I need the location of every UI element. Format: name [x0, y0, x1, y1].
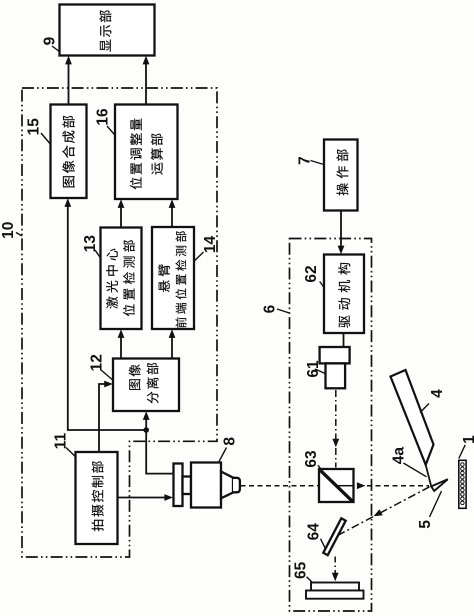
leader 11	[66, 448, 75, 457]
block 15 image synthesis 图像合成部	[51, 105, 87, 199]
block 62 drive mechanism 驱动机构	[324, 255, 364, 334]
block 7 operation unit 操作部	[324, 140, 358, 211]
optical axis splitter to tip with arrow	[357, 482, 366, 489]
svg-text:12: 12	[89, 354, 106, 371]
svg-text:11: 11	[53, 432, 70, 449]
leader 4a	[403, 463, 426, 477]
wire 11 to 12	[99, 384, 107, 452]
leader 64	[321, 539, 326, 549]
leader 8	[219, 448, 227, 462]
block 16 position adjustment calc 位置调整量运算部	[115, 105, 178, 200]
block 11 imaging control 拍摄控制部	[76, 452, 118, 544]
laser source 61 lower	[326, 363, 346, 388]
leader 16	[107, 126, 115, 135]
cantilever holder 4	[391, 370, 434, 465]
laser beam 61 to 63	[335, 390, 337, 468]
svg-text:65: 65	[293, 561, 310, 579]
beam splitter 63	[319, 469, 354, 502]
detector 65 upper	[311, 583, 359, 591]
leader 7	[311, 161, 324, 165]
wire 12 to 13	[120, 335, 122, 359]
camera 8 body	[191, 463, 221, 508]
svg-text:9: 9	[42, 36, 59, 45]
leader 9	[52, 46, 59, 52]
leader 62	[320, 282, 324, 288]
block 14 cantilever tip position detection 悬臂前端位置检测部	[152, 227, 194, 329]
svg-text:1: 1	[461, 435, 474, 444]
svg-text:5: 5	[417, 520, 434, 529]
svg-text:8: 8	[222, 437, 239, 446]
block 13 laser center position detection 激光中心位置检测部	[101, 228, 142, 330]
beam tip to mirror 64	[336, 487, 430, 537]
leader 61	[315, 369, 325, 374]
wire 14 to 16	[171, 205, 173, 227]
laser source 61 upper	[320, 347, 350, 363]
leader 1	[459, 445, 465, 459]
detector 65 base	[306, 591, 364, 599]
svg-text:15: 15	[26, 118, 43, 136]
svg-text:7: 7	[297, 156, 314, 165]
wire 15 to 9	[68, 62, 70, 105]
wire 7 to 62	[340, 211, 342, 250]
block 12 image separation 图像分离部	[113, 359, 179, 412]
leader 12	[101, 370, 113, 380]
optical axis inside splitter	[337, 485, 353, 487]
svg-text:14: 14	[202, 236, 219, 254]
wire 11 to camera 8	[118, 497, 168, 499]
leader 10	[16, 233, 22, 237]
svg-text:10: 10	[0, 222, 17, 239]
block 9 display unit 显示部	[60, 5, 155, 56]
svg-text:61: 61	[305, 360, 322, 378]
leader 65	[307, 577, 312, 582]
sample 1	[459, 460, 466, 508]
svg-text:4: 4	[429, 389, 446, 398]
optical axis camera to beam splitter	[241, 485, 319, 487]
processing-unit boundary box 10	[22, 88, 217, 557]
svg-text:6: 6	[262, 304, 279, 313]
mirror 64	[323, 518, 345, 555]
leader 15	[41, 133, 50, 144]
wire camera video to junction, to 12 and to 15	[146, 430, 173, 474]
svg-text:4a: 4a	[390, 447, 407, 465]
svg-text:63: 63	[303, 450, 320, 468]
leader 13	[95, 250, 100, 258]
svg-text:64: 64	[305, 523, 322, 541]
cantilever lever 4a	[426, 465, 431, 486]
svg-text:13: 13	[82, 235, 99, 253]
svg-text:62: 62	[303, 265, 320, 282]
wire 62 to 61	[343, 333, 345, 347]
leader 5	[430, 491, 442, 517]
camera 8 lens cone	[221, 472, 233, 499]
camera 8 lens nose	[233, 478, 240, 493]
camera 8 connector	[183, 477, 192, 495]
wire 16 to 9	[145, 62, 147, 105]
junction node	[143, 427, 149, 433]
wire 12 to 14	[171, 335, 173, 359]
camera 8 flange	[174, 464, 183, 507]
leader 4	[420, 404, 429, 413]
leader 14	[194, 252, 203, 261]
leader 63	[318, 465, 321, 469]
svg-text:16: 16	[95, 108, 112, 126]
wire 13 to 16	[120, 205, 122, 228]
probe tip	[431, 479, 448, 491]
leader 6	[277, 309, 289, 313]
optical head boundary box 6	[290, 239, 372, 612]
beam 64 to 65	[334, 557, 336, 577]
